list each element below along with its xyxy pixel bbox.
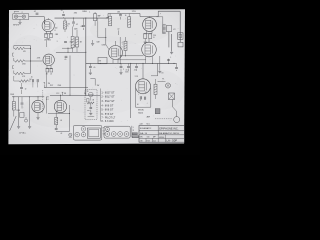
title bottom cols (146, 135, 166, 142)
tiny marks near OT top (158, 14, 161, 17)
hook R9 (13, 53, 14, 56)
wire x69 (69, 105, 71, 131)
svg-text:100: 100 (55, 27, 58, 29)
wire V5 bottom pins (146, 56, 154, 64)
tube V2 6SL7 (43, 54, 54, 65)
paper sheet (8, 9, 185, 144)
wire x30 bus (30, 46, 31, 74)
cluster left of V3 top (89, 11, 101, 25)
resistor R8 47K (14, 47, 31, 53)
wire y59.8 (118, 59, 146, 61)
middle rail y63 (86, 63, 177, 64)
B+ rail mid (108, 14, 140, 19)
label 02 top (117, 29, 119, 35)
tiny text right of box1 (103, 127, 105, 135)
svg-text:DRN: DRN (140, 137, 143, 139)
label 375V (132, 11, 137, 13)
wire left bus top (14, 46, 31, 49)
scan mottle blobs (8, 16, 185, 128)
wire V1 cathode down (44, 31, 53, 33)
B+ rail far right (158, 10, 180, 12)
box below V3 (98, 58, 107, 64)
title col line (157, 126, 159, 135)
fuse circle (25, 117, 28, 122)
model text under rect (138, 110, 150, 119)
wire y52 link (56, 52, 86, 53)
note above title (140, 124, 150, 126)
V4 cathode drop (144, 31, 153, 34)
svg-text:500K: 500K (74, 28, 78, 30)
socket circle 1b (81, 132, 86, 137)
tube V5 6SL7 (142, 42, 157, 57)
svg-text:25MF: 25MF (16, 110, 20, 112)
svg-text:.1MF: .1MF (55, 34, 59, 36)
resistor R9 470K (14, 58, 31, 65)
dashed option box (85, 90, 97, 120)
svg-text:S: S (133, 127, 134, 129)
svg-text:10: 10 (25, 89, 27, 91)
svg-text:.05: .05 (61, 10, 63, 12)
ground under jacks (18, 19, 21, 24)
tube V3 6SL7 (109, 46, 123, 60)
chassis box 2 (104, 126, 130, 138)
svg-text:MODEL: MODEL (138, 110, 144, 112)
title text epiphone (159, 126, 179, 130)
bracket corner (90, 79, 99, 87)
wire V3 grid left (98, 28, 110, 50)
label .05 mid left (64, 56, 67, 61)
title text LA-50P (166, 138, 177, 142)
wire x70 long (69, 56, 70, 96)
output jack box A (178, 33, 183, 40)
wire rect right down (150, 88, 152, 107)
tube V7 (32, 100, 44, 112)
resistor R13 (55, 117, 63, 124)
wire y95.3 (50, 95, 100, 96)
wire V5 top (148, 39, 150, 43)
label 1meg top (82, 11, 88, 13)
svg-text:.02: .02 (60, 133, 62, 135)
svg-text:4-12: 4-12 (153, 141, 156, 143)
wire x46 bot (45, 97, 47, 114)
tube V8 (54, 100, 66, 112)
wire x120 drop (119, 37, 121, 63)
filter cap CF2 (145, 97, 148, 105)
pot tap marks (62, 92, 67, 95)
title text schematic (140, 127, 152, 130)
title text model no (159, 137, 165, 139)
wire y113.5 (48, 113, 70, 114)
svg-text:MODEL: MODEL (159, 137, 165, 139)
cap C5 (117, 11, 122, 19)
wire x68 drop (62, 48, 73, 53)
hook R10 (13, 66, 14, 69)
svg-text:INPUTS: INPUTS (13, 24, 19, 26)
V4 cathode parts (144, 34, 156, 44)
wire V4 top (149, 17, 151, 18)
svg-text:1 MEG: 1 MEG (82, 11, 88, 13)
title row line 3 (139, 137, 184, 139)
svg-text:47K: 47K (81, 26, 84, 28)
B+ rail right (140, 11, 158, 16)
wire x46 to pot (45, 72, 47, 87)
title block frame (139, 126, 184, 143)
wire y131 (56, 130, 69, 132)
resistor R10 4.7K (14, 71, 31, 78)
cap C2 on rail (61, 10, 65, 18)
bracket text right (132, 126, 139, 138)
filter cap CF1 (138, 94, 141, 101)
svg-text:KALAMAZOO, MICH.: KALAMAZOO, MICH. (159, 132, 180, 135)
AC cord diagonal (10, 116, 17, 131)
wire OT sec down (168, 32, 170, 48)
label 40MF (137, 92, 147, 106)
ground mid top (91, 40, 94, 45)
wire pilot branch (151, 63, 158, 76)
label 470K left V2 (37, 58, 41, 60)
legend left rail (99, 89, 101, 122)
wire x159 seg (158, 56, 163, 74)
labels above V8 (46, 93, 59, 101)
fuse holder symbol (69, 133, 72, 137)
cap C11 (16, 97, 23, 112)
switch box (20, 112, 24, 117)
cap C8 (89, 63, 96, 74)
wire to V2 grid (31, 60, 43, 62)
label 250K (10, 94, 15, 96)
label right of V1 (55, 27, 59, 35)
svg-text:7 - PILOT LT: 7 - PILOT LT (101, 117, 115, 120)
wire x18 down (18, 97, 20, 126)
texture near y95 (84, 93, 86, 95)
cap C6 (20, 83, 26, 94)
label pot 250K (50, 85, 62, 87)
output transformer T1 primary (163, 25, 166, 34)
socket circle 2a (106, 127, 110, 131)
svg-text:8 - 6.3 VAC: 8 - 6.3 VAC (101, 120, 114, 123)
dotted vert (42, 90, 44, 113)
wire rect bottom (136, 106, 151, 108)
resistor R6 below rail (106, 14, 112, 26)
socket row c3 (118, 132, 123, 137)
texture cluster v1 bottom (56, 41, 76, 48)
wire x13 bottom (13, 97, 15, 102)
wire V8 top (60, 95, 62, 100)
cap C6b (31, 77, 34, 88)
speaker terminal circle (174, 117, 180, 123)
wire V1 plate up (47, 18, 49, 19)
title small cells (140, 136, 157, 143)
title text EA-50 (140, 132, 148, 135)
wire V8 cathode (55, 111, 57, 117)
vertical rail x86 (85, 18, 86, 96)
wire y87.4 (45, 85, 88, 87)
junction x73 (73, 12, 78, 21)
V2 below cluster (46, 65, 53, 75)
svg-text:EA-50: EA-50 (138, 112, 143, 115)
legend list text (101, 91, 115, 123)
rectifier V6 5Y3 (136, 79, 151, 94)
cap C9 (119, 63, 124, 74)
dark label block (155, 109, 160, 114)
svg-text:8MF: 8MF (98, 16, 101, 18)
label VC (173, 29, 176, 31)
title text kalamazoo (159, 132, 180, 135)
resistor R7 (125, 14, 131, 28)
socket circle 1a (81, 127, 86, 132)
wire x46 upper (45, 39, 47, 47)
socket circle 1c (75, 132, 80, 137)
wire left column (130, 63, 132, 118)
texture below1 (55, 24, 83, 30)
wire y81.6 (158, 81, 166, 83)
label 117V (19, 131, 27, 134)
B+ rail left (55, 17, 109, 19)
tube V1 6SJ7 (42, 20, 54, 32)
svg-text:SCHEMATIC: SCHEMATIC (140, 127, 152, 130)
cap right a (167, 57, 171, 63)
svg-text:.02: .02 (34, 11, 36, 13)
svg-text:1: 1 (14, 12, 15, 14)
wire x29 down (29, 97, 31, 126)
resistor R12 (12, 102, 15, 117)
wire y55.8 (120, 55, 144, 56)
cap C1 grid (34, 11, 39, 14)
ground bl2 (28, 127, 31, 129)
wire V7 top (37, 97, 39, 101)
wire OT top (156, 17, 162, 25)
power transformer rect (87, 128, 100, 138)
wire rect left down (135, 89, 138, 108)
scan speckle noise (16, 12, 179, 121)
wire V7 down (36, 113, 39, 120)
wire jacks to V1 grid (29, 17, 45, 24)
resistor R4 mid (71, 27, 74, 53)
wire to speaker (173, 100, 177, 117)
option box contents (87, 91, 95, 117)
output jack box B (178, 42, 183, 47)
cap C7b (37, 79, 38, 87)
caps below mid rail b (134, 63, 138, 71)
plate resistor R3 (64, 18, 71, 32)
label inputs (13, 24, 19, 26)
wire x176 cap (175, 63, 178, 71)
label 50M cond (97, 42, 106, 47)
filter resistor RF (154, 79, 157, 99)
ground right (170, 52, 173, 54)
cluster below rail a (72, 22, 78, 27)
svg-text:EPIPHONE INC.: EPIPHONE INC. (159, 126, 179, 130)
tube V4 6V6 (143, 18, 157, 32)
svg-text:LA - 50P: LA - 50P (166, 138, 177, 142)
svg-text:R.M.: R.M. (147, 141, 151, 143)
svg-text:.02: .02 (76, 24, 78, 26)
wire right rail drop (179, 11, 181, 42)
title row line 1 (139, 129, 184, 131)
pot volume (44, 82, 51, 88)
svg-text:.1: .1 (89, 11, 90, 13)
caps below mid rail a (125, 63, 129, 73)
svg-text:220: 220 (67, 23, 70, 25)
dashed link text (155, 118, 172, 120)
socket row c4 (124, 132, 129, 137)
svg-text:J.W.: J.W. (140, 141, 144, 143)
svg-text:.1: .1 (56, 41, 57, 43)
OT core box (167, 25, 172, 31)
resistor R5 mid (76, 30, 83, 52)
label 5Y3 (135, 76, 138, 78)
wire V3 top (115, 41, 117, 46)
fuse box (169, 93, 175, 100)
resistor R11 (14, 79, 32, 83)
svg-text:CKD: CKD (147, 137, 150, 139)
chassis box 1 (73, 125, 101, 140)
resistor R14 mid (122, 37, 127, 56)
wire y96.8 (12, 96, 44, 97)
pilot lamp (162, 79, 170, 88)
svg-text:2: 2 (22, 12, 23, 14)
input jacks J1 J2 (13, 11, 29, 19)
socket row c1 (105, 132, 110, 137)
V1 cathode parts (44, 34, 52, 42)
svg-text:25: 25 (49, 40, 51, 42)
ground bl1 (17, 127, 20, 129)
label under c12 (60, 133, 62, 135)
wire spk gnd (171, 34, 173, 52)
wire V3 bottom (113, 59, 118, 63)
title row line 2 (139, 134, 184, 136)
wire rect top (142, 63, 144, 78)
wire x83 drop (82, 18, 85, 30)
wire x97 drop (97, 18, 99, 37)
wire x13 mid (13, 76, 15, 79)
cap C12 (55, 125, 58, 132)
svg-text:EA - 50: EA - 50 (140, 132, 148, 135)
socket row c2 (111, 132, 116, 137)
